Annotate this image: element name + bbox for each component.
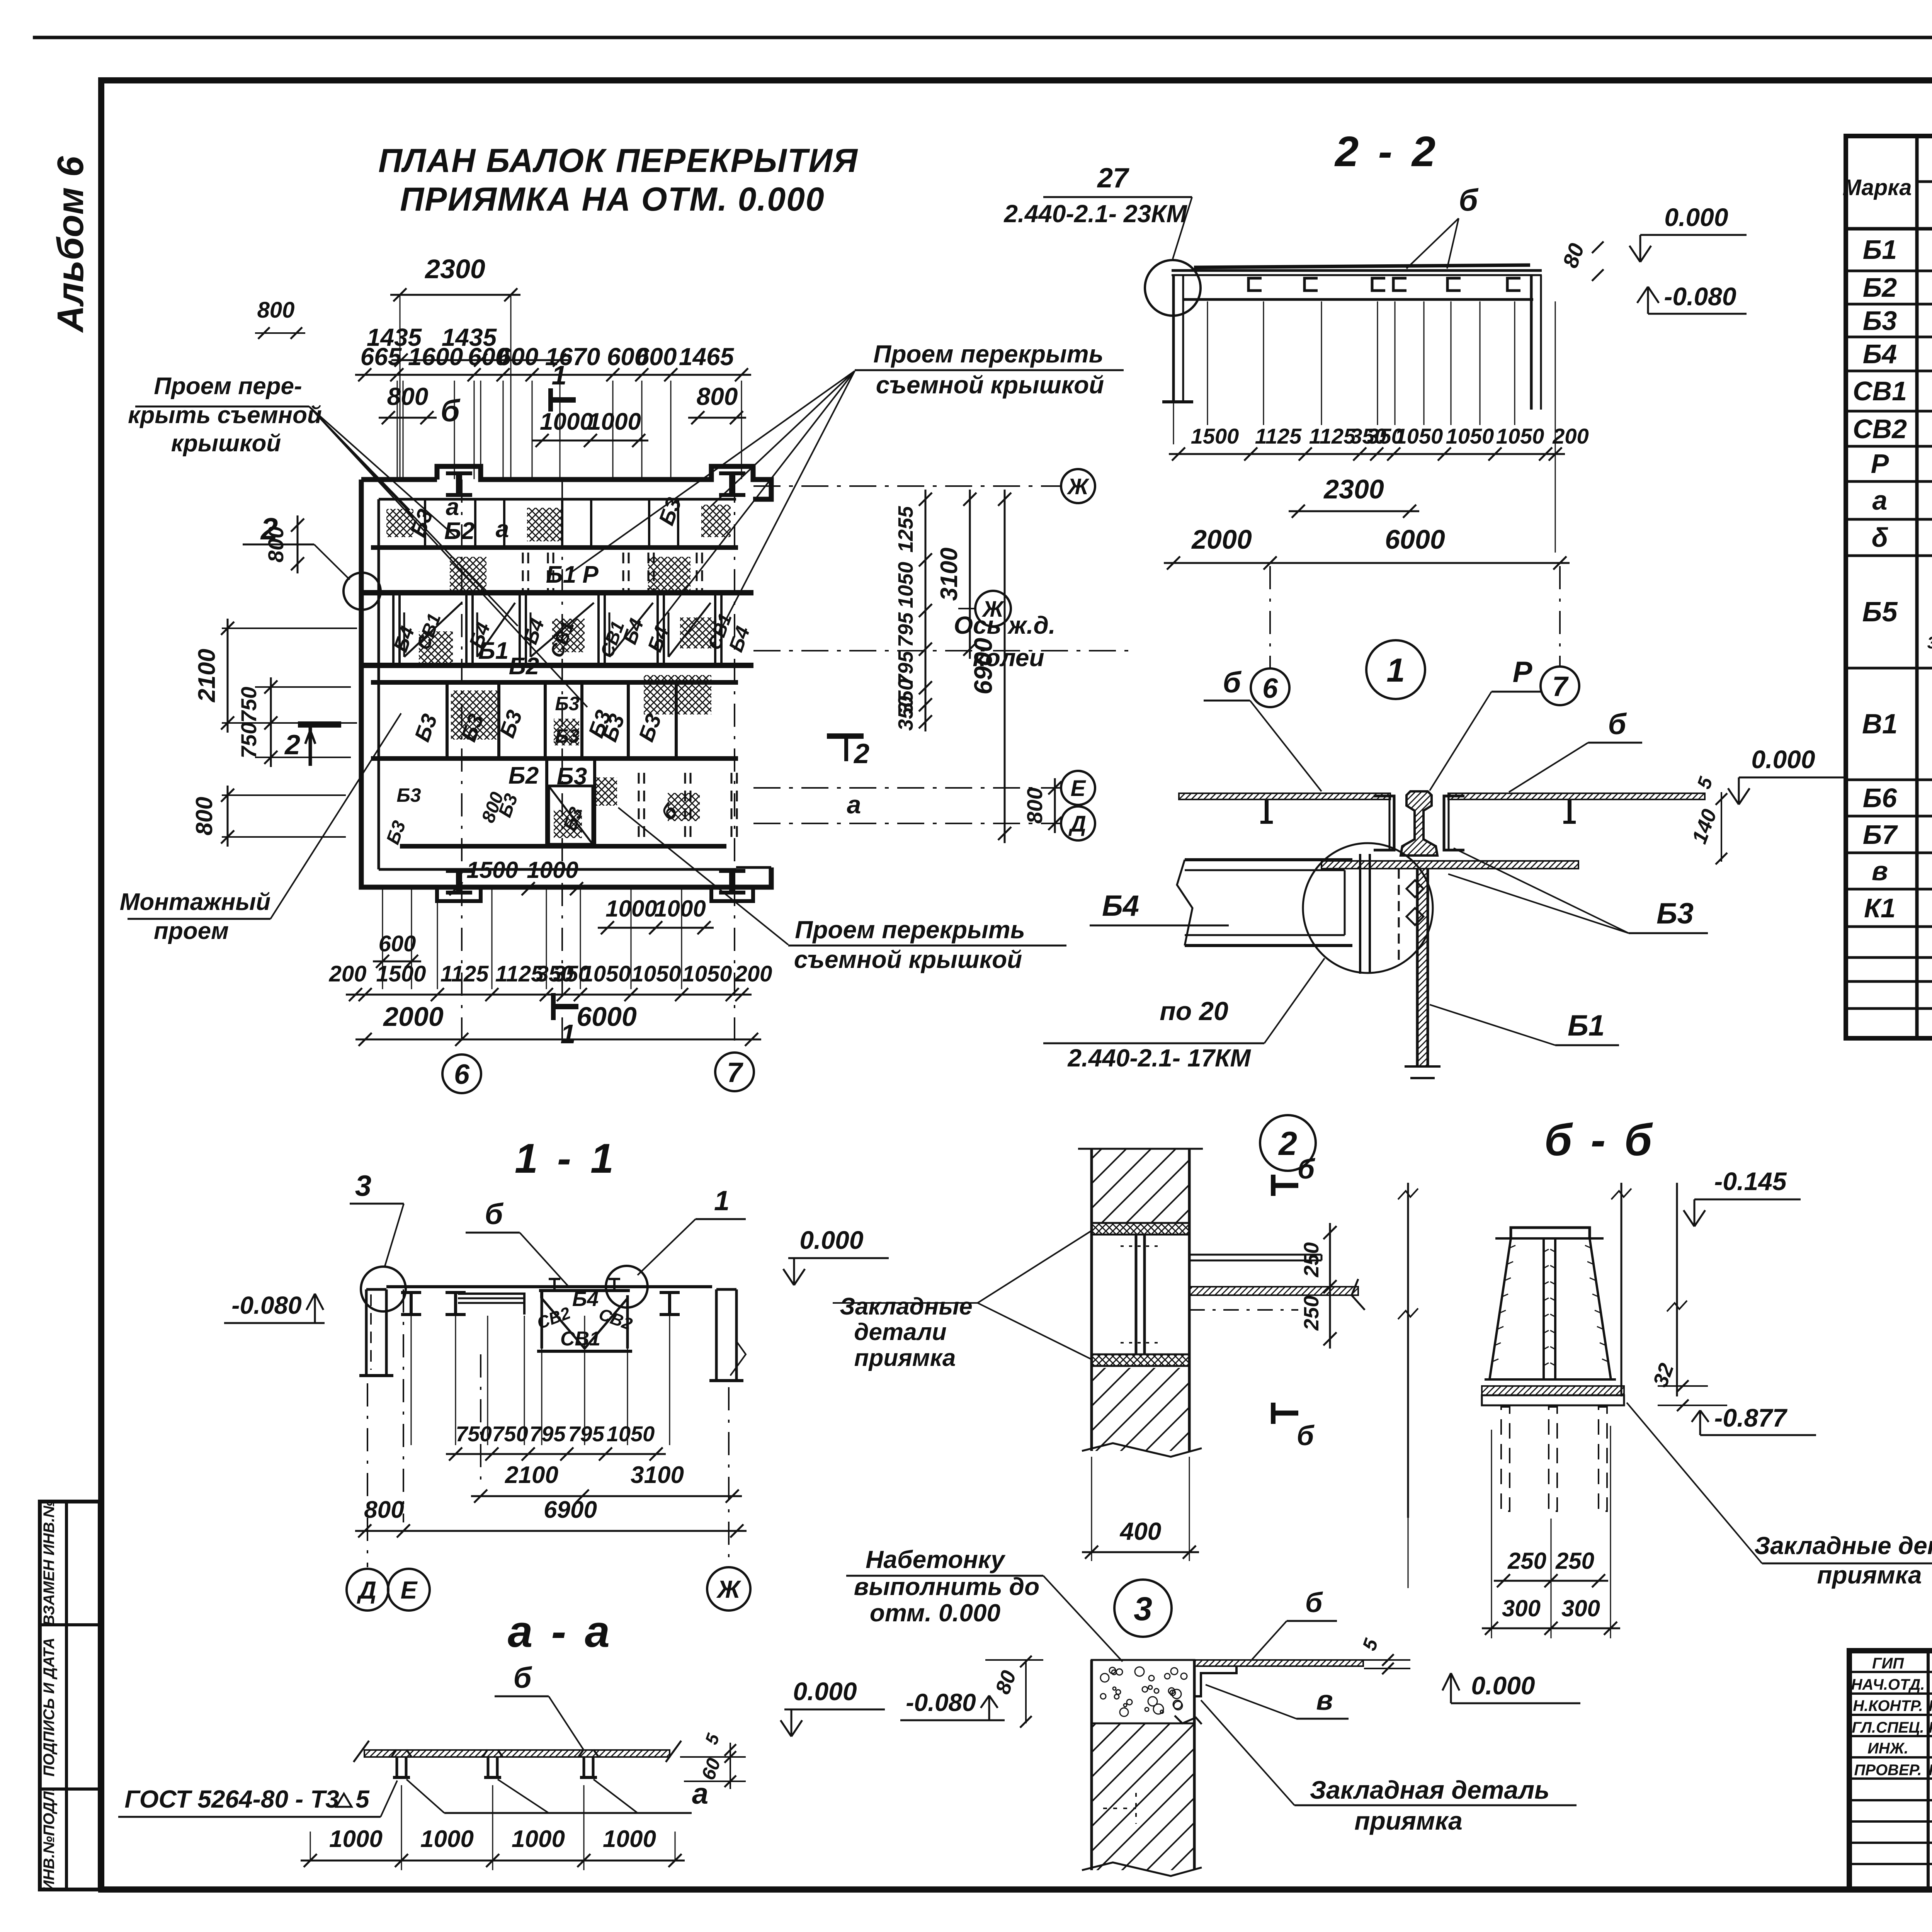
plan dim right 6900 xyxy=(969,490,1011,843)
plan marker 2 flag left xyxy=(284,724,341,766)
svg-text:Ж: Ж xyxy=(716,1575,742,1603)
saa dim 60-5 xyxy=(680,1730,746,1789)
svg-text:а: а xyxy=(446,494,459,520)
svg-text:1 - 1: 1 - 1 xyxy=(515,1135,617,1182)
svg-text:2.440-2.1- 17КМ: 2.440-2.1- 17КМ xyxy=(1067,1044,1251,1072)
svg-text:1: 1 xyxy=(552,360,567,390)
svg-text:Б2: Б2 xyxy=(509,653,539,680)
saa lvl xyxy=(781,1677,885,1736)
svg-text:350: 350 xyxy=(894,696,917,731)
s11 lvl 0000 xyxy=(783,1226,889,1285)
s22 b label xyxy=(1406,183,1479,269)
svg-text:б: б xyxy=(1223,666,1242,699)
table header text xyxy=(1842,142,1932,228)
det3 wall xyxy=(1082,1660,1202,1876)
plan outline xyxy=(361,466,771,901)
s22 hanging lines xyxy=(1173,301,1555,553)
det1 circle xyxy=(1366,640,1425,699)
s11 3 label xyxy=(350,1170,404,1267)
svg-text:7: 7 xyxy=(1552,671,1569,702)
svg-text:б: б xyxy=(513,1662,532,1694)
title block signatures xyxy=(1851,1655,1932,1779)
svg-text:Ось ж.д.: Ось ж.д. xyxy=(954,611,1055,639)
label proem top-left xyxy=(128,373,322,457)
svg-text:400: 400 xyxy=(1119,1517,1162,1545)
svg-text:Б4: Б4 xyxy=(1863,339,1897,369)
table data rows xyxy=(1853,226,1932,923)
sheet top edge line xyxy=(33,36,1932,39)
svg-text:2: 2 xyxy=(853,738,869,769)
svg-text:РАШЕВСКИЙ: РАШЕВСКИЙ xyxy=(1929,1760,1932,1779)
svg-text:6000: 6000 xyxy=(1385,524,1445,554)
svg-text:0.000: 0.000 xyxy=(1751,745,1815,774)
svg-text:приямка: приямка xyxy=(1817,1561,1922,1589)
svg-text:600: 600 xyxy=(379,931,416,956)
s11 circles DEZh xyxy=(347,1567,750,1611)
svg-text:1050: 1050 xyxy=(581,961,631,986)
svg-text:800: 800 xyxy=(191,797,217,835)
plan dim right 3100 xyxy=(936,490,976,659)
svg-text:отм. 0.000: отм. 0.000 xyxy=(870,1599,1000,1627)
svg-text:250: 250 xyxy=(1555,1548,1594,1574)
svg-text:Р: Р xyxy=(582,561,599,588)
plan bottom band dividers xyxy=(547,759,737,846)
b5 lvl -0877 xyxy=(1692,1403,1816,1435)
det3 lvl -0080 xyxy=(900,1689,1005,1720)
svg-text:665: 665 xyxy=(361,343,402,371)
svg-text:в: в xyxy=(1872,856,1888,886)
svg-text:5: 5 xyxy=(355,1785,370,1813)
svg-text:Е: Е xyxy=(1071,776,1087,801)
det1 deck xyxy=(1179,793,1705,822)
svg-text:Б6: Б6 xyxy=(1863,783,1898,813)
svg-text:Б2: Б2 xyxy=(1863,272,1897,303)
det3 nabetonku label xyxy=(846,1546,1122,1662)
s22 dim 2300 xyxy=(1289,474,1419,518)
svg-text:Б1: Б1 xyxy=(546,561,576,588)
s22 circle 7 xyxy=(1541,566,1579,705)
svg-text:200: 200 xyxy=(1552,424,1588,448)
det1 b left xyxy=(1204,666,1321,791)
svg-text:проем: проем xyxy=(154,918,229,944)
svg-text:-0.080: -0.080 xyxy=(231,1291,301,1319)
svg-text:200: 200 xyxy=(735,961,772,986)
svg-text:а - а: а - а xyxy=(508,1606,613,1656)
det3 lvl 0000 xyxy=(1442,1671,1580,1703)
svg-text:3: 3 xyxy=(355,1170,371,1202)
svg-text:1500: 1500 xyxy=(376,961,426,986)
svg-text:РАШЕВСКИЙ: РАШЕВСКИЙ xyxy=(1929,1696,1932,1714)
svg-text:2300: 2300 xyxy=(1323,474,1384,504)
svg-text:а: а xyxy=(1872,485,1888,515)
label montazh xyxy=(120,713,401,944)
svg-text:3100: 3100 xyxy=(631,1462,684,1488)
svg-text:2100: 2100 xyxy=(505,1462,558,1488)
plan dim left 800top xyxy=(264,515,304,573)
svg-text:Б4: Б4 xyxy=(1102,889,1139,922)
s11 dim chain1 xyxy=(446,1422,666,1461)
det3 dim 80 xyxy=(985,1656,1043,1728)
det1 R label xyxy=(1430,656,1542,791)
det1 B1 label xyxy=(1430,1005,1619,1045)
plan extension verticals xyxy=(383,381,742,1043)
svg-text:800: 800 xyxy=(1022,787,1047,823)
svg-text:Закладные: Закладные xyxy=(840,1293,973,1320)
svg-text:27: 27 xyxy=(1097,163,1129,194)
svg-text:б: б xyxy=(1297,1420,1315,1451)
svg-text:-0.145: -0.145 xyxy=(1714,1167,1787,1196)
svg-text:ГОСТ 5264-80 - Т3: ГОСТ 5264-80 - Т3 xyxy=(124,1785,339,1813)
det2 circle marker xyxy=(1260,1115,1316,1171)
svg-text:б: б xyxy=(1298,1154,1316,1185)
section 2-2 title xyxy=(1334,128,1439,175)
plan inner lines xyxy=(379,499,771,869)
svg-text:6: 6 xyxy=(454,1059,470,1090)
saa a label xyxy=(406,1777,708,1813)
svg-text:СВ1: СВ1 xyxy=(1853,376,1907,406)
svg-text:1255: 1255 xyxy=(894,506,917,553)
plan I-end symbols xyxy=(446,473,745,893)
svg-text:2: 2 xyxy=(1278,1125,1297,1162)
plan labels xyxy=(383,494,754,847)
det1 rail xyxy=(1401,791,1437,855)
s11 dim chain3 xyxy=(355,1497,747,1537)
plan axis circle 7 xyxy=(715,1053,754,1091)
svg-text:2: 2 xyxy=(284,730,300,760)
svg-text:Б1: Б1 xyxy=(478,638,509,664)
svg-text:б: б xyxy=(485,1198,503,1231)
svg-text:600: 600 xyxy=(497,343,539,371)
plan leader diagonals xyxy=(309,371,855,945)
det3 b label xyxy=(1252,1587,1337,1660)
plan dim left 750s xyxy=(236,677,351,767)
plan dim right chain xyxy=(894,490,932,731)
svg-text:1050: 1050 xyxy=(1395,424,1443,448)
plan dim 800 right xyxy=(688,383,746,424)
svg-text:ПОДПИСЬ И ДАТА: ПОДПИСЬ И ДАТА xyxy=(41,1638,58,1777)
svg-text:НАЧ.ОТД.: НАЧ.ОТД. xyxy=(1851,1676,1925,1693)
svg-text:1000: 1000 xyxy=(588,408,641,435)
svg-text:ВЗАМЕН ИНВ.№: ВЗАМЕН ИНВ.№ xyxy=(41,1500,58,1626)
album label xyxy=(50,156,91,333)
det3 deck and angle xyxy=(1175,1660,1363,1724)
plan dim left 2100 xyxy=(194,619,357,733)
plan cell dividers band1 xyxy=(425,499,678,548)
svg-text:по 20: по 20 xyxy=(1160,997,1228,1026)
svg-text:1500: 1500 xyxy=(466,857,518,883)
svg-text:Н.КОНТР.: Н.КОНТР. xyxy=(1853,1697,1923,1714)
svg-text:Б7: Б7 xyxy=(1863,820,1898,850)
s11 right channel xyxy=(709,1289,746,1381)
b5 dim 32 xyxy=(1649,1360,1727,1411)
svg-text:ГИП: ГИП xyxy=(1872,1655,1904,1672)
svg-text:2: 2 xyxy=(260,512,278,546)
svg-text:детали: детали xyxy=(854,1319,947,1345)
svg-text:1000: 1000 xyxy=(603,1826,656,1852)
svg-text:Марка: Марка xyxy=(1842,175,1912,200)
s11 dim chain2 xyxy=(471,1462,742,1503)
svg-text:съемной крышкой: съемной крышкой xyxy=(876,371,1104,399)
plan cell dividers svb band xyxy=(393,593,721,665)
svg-text:1000: 1000 xyxy=(512,1826,565,1852)
svg-text:РАШЕВСКИЙ: РАШЕВСКИЙ xyxy=(1929,1718,1932,1736)
s11 left channel xyxy=(359,1289,393,1376)
s11 hanging lines xyxy=(367,1289,729,1567)
s11 beam sections xyxy=(401,1293,680,1315)
svg-text:колеи: колеи xyxy=(973,644,1044,672)
plan beam lines xyxy=(363,548,753,846)
svg-text:1125: 1125 xyxy=(440,961,489,986)
svg-text:Набетонку: Набетонку xyxy=(866,1546,1006,1573)
svg-text:Б1: Б1 xyxy=(1863,235,1897,265)
axis E line xyxy=(753,771,1095,805)
svg-text:1: 1 xyxy=(714,1185,730,1216)
det1 bottom plate and beam B1 xyxy=(1321,861,1578,1078)
plan marker 2 flag right xyxy=(827,736,869,769)
svg-text:Закладная деталь: Закладная деталь xyxy=(1310,1776,1550,1804)
svg-text:750: 750 xyxy=(236,687,261,723)
svg-text:1000: 1000 xyxy=(420,1826,474,1852)
plan dim left 800b xyxy=(191,786,346,847)
s11 lvl -0080 xyxy=(224,1291,325,1323)
title block grid xyxy=(1849,1651,1932,1889)
s11 circle1 xyxy=(606,1266,648,1308)
label proem bottom xyxy=(788,916,1066,973)
svg-text:б: б xyxy=(440,393,461,428)
s22 circle 6 xyxy=(1251,566,1289,707)
s11 deck line xyxy=(386,1285,712,1288)
det3 circle marker xyxy=(1114,1580,1172,1637)
svg-text:750: 750 xyxy=(492,1422,528,1446)
det2 dim 400 xyxy=(1082,1457,1199,1561)
svg-text:6: 6 xyxy=(1262,673,1278,704)
svg-text:1465: 1465 xyxy=(679,343,735,371)
svg-text:1050: 1050 xyxy=(682,961,732,986)
svg-text:1000: 1000 xyxy=(540,408,593,435)
svg-text:7: 7 xyxy=(727,1057,743,1088)
svg-text:ПЛАН БАЛОК ПЕРЕКРЫТИЯ: ПЛАН БАЛОК ПЕРЕКРЫТИЯ xyxy=(378,142,858,179)
saa b label xyxy=(495,1662,583,1750)
svg-text:1000: 1000 xyxy=(329,1826,383,1852)
svg-text:2000: 2000 xyxy=(383,1002,444,1032)
svg-text:δ: δ xyxy=(1872,522,1888,553)
plan dim 1000-1000b xyxy=(598,896,714,934)
b5 drawing boundary xyxy=(1398,1183,1687,1518)
svg-text:В1: В1 xyxy=(1862,709,1898,740)
svg-text:К1: К1 xyxy=(1864,893,1896,923)
s22 axis Zh xyxy=(958,591,1011,626)
det1 note po20 xyxy=(1043,958,1325,1072)
det2 zakladnye label xyxy=(833,1231,1092,1371)
svg-text:приямка: приямка xyxy=(854,1345,956,1371)
s22 lvl -0.080 xyxy=(1637,282,1747,314)
svg-text:2100: 2100 xyxy=(194,649,220,702)
svg-text:6900: 6900 xyxy=(544,1497,597,1523)
det1 dim 140-5 xyxy=(1687,774,1727,864)
plan dim right 800 xyxy=(1022,778,1061,833)
svg-text:0.000: 0.000 xyxy=(1471,1671,1535,1700)
svg-text:1050: 1050 xyxy=(1496,424,1544,448)
b5 ext lines xyxy=(1408,1426,1611,1638)
svg-text:2 - 2: 2 - 2 xyxy=(1334,128,1439,175)
svg-text:6000: 6000 xyxy=(577,1002,637,1032)
plan dim 800 topleft xyxy=(255,298,305,339)
det1 B4 label xyxy=(1090,889,1229,925)
svg-text:250: 250 xyxy=(1300,1242,1323,1277)
svg-text:Проем перекрыть: Проем перекрыть xyxy=(873,340,1103,368)
svg-text:Б2: Б2 xyxy=(509,762,539,789)
svg-text:300: 300 xyxy=(1561,1595,1600,1621)
svg-text:600: 600 xyxy=(636,343,677,371)
svg-text:1000: 1000 xyxy=(605,896,657,922)
svg-text:3: 3 xyxy=(1927,633,1932,652)
saa title xyxy=(508,1606,613,1656)
svg-text:Д: Д xyxy=(1068,811,1086,837)
svg-text:б: б xyxy=(1305,1587,1323,1618)
plan cell dividers b3 band xyxy=(447,682,676,759)
plan marker 2 left xyxy=(243,512,381,610)
svg-text:Р: Р xyxy=(1871,449,1889,479)
svg-text:б - б: б - б xyxy=(1544,1115,1655,1165)
svg-text:крышкой: крышкой xyxy=(171,430,281,457)
svg-text:Проем пере-: Проем пере- xyxy=(154,373,302,400)
saa deck xyxy=(354,1741,681,1777)
table grid xyxy=(1846,136,1932,1038)
svg-text:ГЛ.СПЕЦ.: ГЛ.СПЕЦ. xyxy=(1852,1719,1924,1736)
inventory strip table xyxy=(40,1500,100,1891)
svg-text:Б1: Б1 xyxy=(1568,1009,1605,1042)
svg-text:795: 795 xyxy=(529,1422,566,1446)
b5 lvl -0145 xyxy=(1684,1167,1801,1226)
svg-text:250: 250 xyxy=(1300,1296,1323,1331)
svg-text:750: 750 xyxy=(456,1422,492,1446)
svg-text:Альбом 6: Альбом 6 xyxy=(50,156,91,333)
axis rail text xyxy=(753,611,1132,672)
plan dim 600 xyxy=(373,931,421,968)
svg-text:250: 250 xyxy=(1507,1548,1546,1574)
plan marker a right xyxy=(847,790,861,819)
svg-text:2.440-2.1- 23КМ: 2.440-2.1- 23КМ xyxy=(1003,200,1187,228)
b5 dim 250s xyxy=(1494,1548,1608,1587)
svg-text:2000: 2000 xyxy=(1191,524,1252,554)
det1 connection xyxy=(1303,843,1433,974)
svg-text:Б4: Б4 xyxy=(572,1287,599,1311)
det2 wall xyxy=(1078,1149,1203,1457)
svg-text:800: 800 xyxy=(364,1497,404,1523)
svg-text:2300: 2300 xyxy=(424,254,485,284)
det3 dim 5 xyxy=(1358,1635,1410,1674)
plan dim 2300 xyxy=(390,254,520,479)
svg-text:3100: 3100 xyxy=(936,548,963,601)
svg-text:Монтажный: Монтажный xyxy=(120,889,271,915)
svg-text:приямка: приямка xyxy=(1354,1806,1463,1835)
svg-text:1000: 1000 xyxy=(527,857,578,883)
svg-text:Б3: Б3 xyxy=(555,693,579,714)
bb section title xyxy=(1544,1115,1655,1165)
svg-text:795: 795 xyxy=(894,612,917,647)
svg-text:3: 3 xyxy=(1134,1590,1152,1628)
svg-text:ПРОВЕР.: ПРОВЕР. xyxy=(1854,1762,1922,1779)
svg-text:выполнить до: выполнить до xyxy=(854,1573,1039,1600)
svg-text:1500: 1500 xyxy=(1191,424,1239,448)
svg-text:Р: Р xyxy=(1513,656,1532,689)
svg-text:Е: Е xyxy=(401,1576,418,1604)
det1 B3 label xyxy=(1448,848,1708,933)
svg-text:1000: 1000 xyxy=(654,896,706,922)
svg-text:-0.877: -0.877 xyxy=(1714,1403,1787,1432)
svg-text:съемной крышкой: съемной крышкой xyxy=(794,946,1022,973)
svg-text:1: 1 xyxy=(561,1019,576,1049)
det2 b top xyxy=(1273,1154,1316,1196)
svg-text:Б3: Б3 xyxy=(555,725,579,747)
svg-text:СВ2: СВ2 xyxy=(1853,414,1907,444)
svg-text:1125: 1125 xyxy=(1255,424,1302,448)
svg-text:795: 795 xyxy=(568,1422,604,1446)
svg-text:в: в xyxy=(1316,1685,1333,1716)
s11 title xyxy=(515,1135,617,1182)
svg-text:СВ1: СВ1 xyxy=(560,1328,600,1350)
s22 circle xyxy=(1145,260,1201,316)
plan dim 800 left xyxy=(379,383,437,424)
label proem right xyxy=(855,340,1124,399)
s11 1 label xyxy=(638,1185,746,1275)
svg-text:Проем перекрыть: Проем перекрыть xyxy=(795,916,1025,944)
plan dim 1000x2 xyxy=(532,408,648,447)
b5 zakladnye label xyxy=(1627,1403,1932,1589)
svg-text:ИНЖ.: ИНЖ. xyxy=(1867,1740,1908,1757)
svg-text:0.000: 0.000 xyxy=(793,1677,857,1706)
svg-text:Б5: Б5 xyxy=(1862,597,1898,628)
det1 lvl xyxy=(1728,745,1847,804)
axis D line xyxy=(753,806,1095,840)
saa dims 1000s xyxy=(301,1785,685,1870)
plan dashed lines band1 xyxy=(523,553,702,591)
det2 b bottom xyxy=(1273,1403,1315,1451)
axis Zh line xyxy=(753,469,1095,503)
svg-text:Б3: Б3 xyxy=(1656,897,1694,930)
s11 b label xyxy=(466,1198,568,1286)
svg-text:а: а xyxy=(692,1777,708,1810)
det2 beam out xyxy=(1189,1255,1365,1310)
svg-text:1050: 1050 xyxy=(1446,424,1494,448)
svg-text:750: 750 xyxy=(236,722,261,758)
plan dim bottom chain xyxy=(329,961,772,1001)
plan marker b top xyxy=(440,393,461,428)
main title xyxy=(378,142,858,218)
svg-text:Ж: Ж xyxy=(981,597,1005,622)
svg-text:300: 300 xyxy=(1502,1595,1541,1621)
s11 circle3 xyxy=(361,1267,406,1311)
plan dim 1500-1000 xyxy=(446,857,586,895)
svg-text:Б3: Б3 xyxy=(1863,306,1897,336)
svg-text:0.000: 0.000 xyxy=(799,1226,863,1254)
det1 beam B4 xyxy=(1177,860,1352,946)
plan axis circle 6 xyxy=(442,1054,481,1093)
plan crosshatch patches xyxy=(386,505,731,838)
s22 dim chain xyxy=(1169,424,1589,461)
svg-text:1050: 1050 xyxy=(894,562,917,608)
plan dim 2000-6000 xyxy=(355,1002,761,1046)
b5 anchors xyxy=(1501,1407,1607,1511)
det3 zakladnaya label xyxy=(1201,1700,1577,1835)
plan marker 1 bottom xyxy=(553,993,578,1049)
svg-text:1125: 1125 xyxy=(1309,424,1356,448)
svg-text:1050: 1050 xyxy=(631,961,681,986)
det2 dim 250s xyxy=(1300,1223,1337,1349)
b5 dim 300s xyxy=(1482,1595,1620,1635)
svg-text:800: 800 xyxy=(697,383,738,410)
svg-text:-0.080: -0.080 xyxy=(906,1689,976,1716)
